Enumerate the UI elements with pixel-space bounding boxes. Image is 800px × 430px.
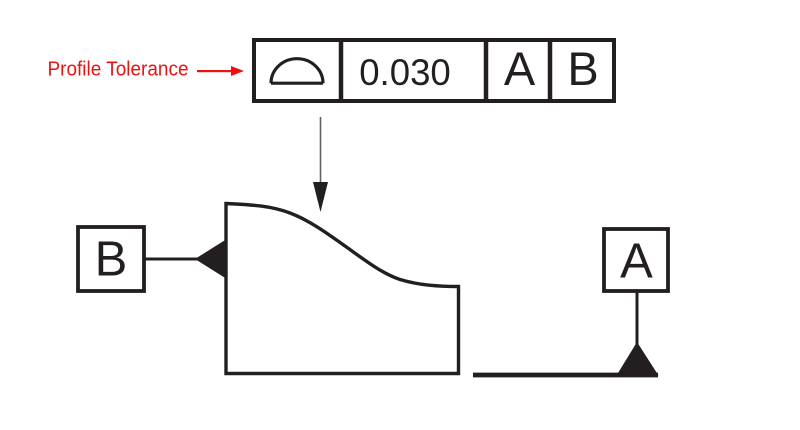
datum feature B label box bbox=[78, 227, 144, 291]
datum A filled triangle on datum surface bbox=[617, 342, 659, 376]
datum feature A label box bbox=[604, 229, 668, 291]
datum B leader line bbox=[144, 258, 198, 261]
frame divider after tolerance value cell bbox=[484, 40, 489, 101]
svg-text:A: A bbox=[620, 235, 653, 289]
leader arrow from frame down to profiled surface: arrowhead bbox=[313, 182, 328, 212]
svg-text:Profile Tolerance: Profile Tolerance bbox=[48, 58, 189, 81]
frame divider after profile symbol cell bbox=[339, 40, 344, 101]
frame divider after datum A cell bbox=[548, 40, 553, 101]
svg-text:B: B bbox=[95, 233, 128, 287]
datum A leader line bbox=[636, 291, 639, 348]
datum A surface line bbox=[473, 373, 658, 378]
datum B filled triangle on part left edge bbox=[195, 240, 226, 279]
leader arrow from frame down to profiled surface: shaft bbox=[320, 117, 322, 184]
svg-text:0.030: 0.030 bbox=[359, 52, 451, 93]
svg-text:B: B bbox=[567, 42, 598, 95]
part outline with curved profile surface bbox=[226, 204, 459, 374]
profile of a surface symbol (semicircle with chord) bbox=[271, 59, 323, 84]
svg-text:A: A bbox=[504, 42, 536, 95]
red leader arrow to feature control frame bbox=[197, 66, 244, 76]
feature control frame outer box bbox=[254, 40, 614, 101]
